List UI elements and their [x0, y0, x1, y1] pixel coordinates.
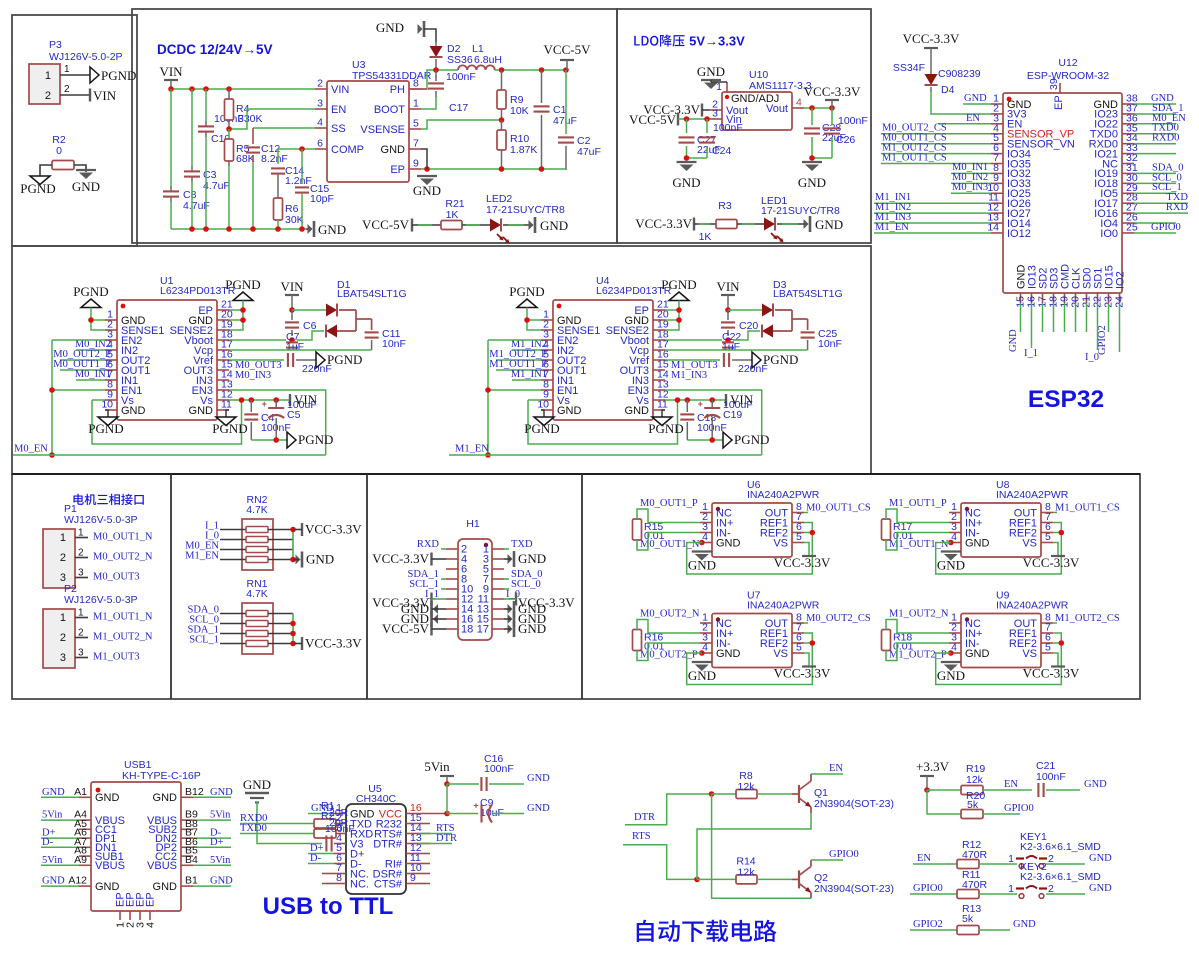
capacitor C8 4.7uF	[163, 190, 179, 192]
pin 10 DSR# of U5	[406, 873, 418, 875]
GND wire U8	[949, 542, 951, 544]
capacitor C5 100uF	[275, 400, 277, 407]
svg-text:5Vin: 5Vin	[424, 759, 450, 774]
svg-text:INA240A2PWR: INA240A2PWR	[996, 600, 1069, 612]
GND port H1 right	[513, 621, 516, 637]
pin B1 GND of USB1	[181, 885, 193, 887]
pin 4 of H1	[446, 558, 458, 560]
svg-text:VCC-3.3V: VCC-3.3V	[1023, 666, 1080, 681]
svg-text:M0_OUT2_N: M0_OUT2_N	[640, 609, 700, 620]
title motor three-phase connector	[73, 494, 83, 505]
pin 6 of H1	[446, 568, 458, 570]
pin 1 NC of U8	[949, 512, 961, 514]
svg-text:VIN: VIN	[280, 279, 304, 294]
ground symbol U6	[692, 550, 712, 552]
svg-text:GND: GND	[815, 217, 843, 232]
svg-text:M0_IN3: M0_IN3	[952, 182, 988, 193]
svg-text:M1_OUT2_N: M1_OUT2_N	[93, 632, 153, 643]
svg-text:INA240A2PWR: INA240A2PWR	[747, 489, 820, 501]
wire C8 column	[170, 89, 172, 186]
pin 1 GND of U12	[991, 103, 1003, 105]
svg-text:5Vin: 5Vin	[210, 855, 231, 866]
svg-text:8: 8	[413, 78, 419, 90]
svg-text:PGND: PGND	[88, 421, 123, 436]
pin 3 RXD of U5	[334, 833, 346, 835]
VIN port at U1 Vs	[289, 394, 291, 406]
pin 5 VS of U6	[792, 542, 804, 544]
svg-text:39: 39	[1048, 78, 1060, 90]
capacitor 220nF U1	[287, 353, 289, 367]
svg-text:M0_OUT3: M0_OUT3	[93, 572, 140, 583]
svg-text:100nF: 100nF	[838, 115, 868, 127]
svg-text:9: 9	[410, 872, 416, 884]
svg-text:M0_OUT2_N: M0_OUT2_N	[93, 552, 153, 563]
wire COMP pin to C14/C15	[278, 148, 315, 150]
pin 4 GND of U9	[949, 652, 961, 654]
svg-text:D-: D-	[310, 853, 322, 864]
svg-text:GPIO0: GPIO0	[1151, 222, 1181, 233]
svg-text:3: 3	[60, 652, 66, 664]
svg-text:PGND: PGND	[298, 432, 333, 447]
pin 3 IN- of U8	[949, 532, 961, 534]
pin 14 RTS# of U5	[406, 833, 418, 835]
pin 21 EP of U1	[217, 309, 229, 311]
svg-text:+: +	[262, 399, 267, 409]
pin 8 OUT of U9	[1041, 622, 1053, 624]
divider line mid row 1	[170, 474, 172, 699]
svg-text:GND: GND	[72, 179, 100, 194]
wire C14 to R6	[277, 174, 279, 198]
PGND under pin11 U1	[226, 410, 229, 417]
pin 1 of P3	[60, 74, 90, 76]
GND port RN2	[301, 552, 304, 568]
PGND under pin10 U4	[541, 410, 544, 417]
svg-text:GPIO2: GPIO2	[913, 919, 943, 930]
svg-text:M0_OUT1_P: M0_OUT1_P	[640, 498, 698, 509]
pin 15 OUT3 of U1	[217, 369, 229, 371]
svg-text:VBUS: VBUS	[147, 860, 177, 872]
wire 5Vin down	[446, 784, 448, 814]
pin 37 IO23 of U12	[1122, 113, 1134, 115]
svg-text:1: 1	[60, 532, 66, 544]
pin 3 IN- of U9	[949, 642, 961, 644]
svg-text:100nF: 100nF	[1036, 771, 1066, 783]
svg-text:GND: GND	[95, 792, 120, 804]
svg-text:3: 3	[712, 108, 718, 120]
svg-text:5: 5	[413, 118, 419, 130]
svg-text:18: 18	[461, 624, 473, 636]
svg-text:EN: EN	[331, 104, 346, 116]
wire VIN bus to U3 pin2	[171, 88, 315, 90]
pin 1 BOOT of U3	[409, 108, 421, 110]
transistor Q2 2N3904	[798, 870, 800, 888]
pin 2 IN+ of U7	[700, 632, 712, 634]
resistor R8 12k	[712, 793, 736, 795]
svg-text:A1: A1	[74, 786, 87, 798]
nc stubs U5 pins 7-8	[322, 873, 334, 875]
VCC-3.3V port RN2	[301, 523, 303, 536]
wire at U12 pin33	[1134, 153, 1176, 155]
wire VCC-3.3V to R3	[694, 223, 716, 225]
svg-text:VIN: VIN	[93, 88, 117, 103]
pin 16 VCC of U5	[406, 813, 418, 815]
svg-text:0: 0	[56, 145, 62, 157]
svg-text:NC.: NC.	[350, 878, 369, 890]
pin A1 GND of USB1	[79, 796, 91, 798]
svg-text:GND: GND	[625, 405, 650, 417]
gnd bus bottom of DCDC	[171, 228, 306, 230]
wire R11 to KEY2	[979, 893, 1017, 895]
wire R21 to LED2	[462, 224, 490, 226]
svg-text:5k: 5k	[962, 913, 974, 925]
pin 39 EP of U12	[1059, 83, 1061, 93]
pin B8 SUB2 of USB1	[181, 828, 193, 830]
wire SS pin to C12	[253, 127, 315, 129]
svg-text:M1_EN: M1_EN	[185, 551, 219, 562]
svg-text:330K: 330K	[238, 113, 263, 125]
svg-text:GND: GND	[937, 558, 965, 573]
pin 17 of H1	[492, 628, 504, 630]
svg-text:GND: GND	[557, 405, 582, 417]
pin 3 IN- of U7	[700, 642, 712, 644]
pin 6 OUT1 of U4	[541, 369, 553, 371]
pin 9 EP of U3	[409, 168, 421, 170]
resistor R9 10K	[501, 70, 503, 90]
svg-text:VCC-3.3V: VCC-3.3V	[635, 216, 692, 231]
pin 8 EN1 of U4	[541, 389, 553, 391]
svg-text:2: 2	[317, 78, 323, 90]
pin 23 IO15 of U12	[1108, 293, 1110, 303]
pin 12 of H1	[446, 598, 458, 600]
shared border motor/middle row	[12, 473, 1140, 475]
svg-text:VCC-5V: VCC-5V	[382, 621, 430, 636]
net M0_OUT2_CS at U7 OUT	[804, 622, 808, 624]
cap gnd wire U1	[251, 439, 287, 441]
svg-text:3: 3	[78, 568, 84, 579]
svg-text:17-21SUYC/TR8: 17-21SUYC/TR8	[486, 204, 565, 216]
pin 5 VS of U9	[1041, 652, 1053, 654]
svg-text:U12: U12	[1058, 57, 1077, 69]
resistor R6 30K	[274, 198, 283, 220]
svg-text:VBUS: VBUS	[95, 860, 125, 872]
wire R2 right to GND	[74, 165, 86, 172]
pin 8 OUT of U7	[792, 622, 804, 624]
svg-text:GND: GND	[716, 537, 741, 549]
Vcp wire U4	[665, 349, 808, 351]
svg-text:1: 1	[78, 608, 84, 619]
capacitor C21 100nF	[1037, 783, 1039, 797]
capacitor C6 bootstrap	[291, 310, 293, 320]
svg-text:D+: D+	[210, 837, 224, 848]
svg-text:5: 5	[1045, 642, 1051, 654]
svg-text:7: 7	[413, 138, 419, 150]
VCC-3.3V flag U7	[802, 665, 816, 667]
svg-text:DCDC 12/24V→5V: DCDC 12/24V→5V	[157, 42, 273, 57]
pin 3 EN of U12	[991, 123, 1003, 125]
svg-text:WJ126V-5.0-3P: WJ126V-5.0-3P	[64, 594, 138, 606]
svg-text:PGND: PGND	[763, 352, 798, 367]
ground symbol DCDC bus	[306, 228, 312, 230]
svg-text:AMS1117-3.3: AMS1117-3.3	[749, 80, 812, 92]
Vboot wire U4	[665, 339, 722, 341]
pin 5 OUT2 of U4	[541, 359, 553, 361]
svg-text:GND: GND	[964, 93, 987, 104]
pin 12 IO27 of U12	[991, 212, 1003, 214]
svg-text:GND: GND	[527, 773, 550, 784]
svg-text:PGND: PGND	[509, 284, 544, 299]
pin A7 DN1 of USB1	[79, 846, 91, 848]
svg-text:TXD: TXD	[511, 539, 533, 550]
pin 33 IO21 of U12	[1122, 153, 1134, 155]
pin 10 of H1	[446, 588, 458, 590]
resistor R10 1.87K	[497, 130, 506, 150]
pin 1 of H1	[492, 548, 504, 550]
svg-text:GND: GND	[210, 787, 233, 798]
resistor R3 1K	[716, 220, 737, 229]
svg-text:USB to TTL: USB to TTL	[263, 893, 394, 920]
pin 9 Vs of U1	[105, 399, 117, 401]
EN3 wire U4	[665, 390, 762, 455]
pin 11 GND of U1	[217, 409, 229, 411]
capacitor C15 10pF	[301, 149, 303, 184]
svg-text:3: 3	[317, 98, 323, 110]
wire GND pin7 to EP bus	[421, 149, 427, 169]
wire +3.3V to R19	[927, 789, 961, 791]
svg-text:C6: C6	[303, 320, 317, 332]
svg-text:1: 1	[1008, 853, 1014, 865]
capacitor 100nF at V3	[325, 836, 327, 852]
capacitor 220nF U4	[723, 353, 725, 367]
svg-text:M0_OUT2_CS: M0_OUT2_CS	[806, 613, 871, 624]
wire Q2 emitter	[810, 892, 812, 898]
svg-text:M0_EN: M0_EN	[14, 444, 48, 455]
pin 14 IO12 of U12	[991, 232, 1003, 234]
capacitor C7 1uF	[286, 341, 298, 343]
net GPIO0 row R20	[983, 813, 1020, 815]
pin 9 Vs of U4	[541, 399, 553, 401]
wire PH stub link	[409, 88, 427, 90]
svg-text:470R: 470R	[962, 879, 988, 891]
resistor R1 20R	[314, 819, 336, 828]
pin 20 GND of U1	[217, 319, 229, 321]
pin 4 V3 of U5	[334, 843, 346, 845]
pin A9 VBUS of USB1	[79, 864, 91, 866]
transistor Q1 2N3904	[798, 785, 800, 803]
junction dots on VIN bus	[168, 86, 174, 92]
svg-text:10pF: 10pF	[310, 193, 334, 205]
EN tie wire U4	[488, 339, 541, 341]
pin A8 SUB1 of USB1	[79, 855, 91, 857]
pin B9 VBUS of USB1	[181, 819, 193, 821]
svg-text:10nF: 10nF	[382, 338, 406, 350]
svg-text:1uF: 1uF	[286, 341, 304, 353]
REF2 tie U9	[1053, 642, 1061, 644]
svg-text:C19: C19	[723, 409, 742, 421]
svg-text:GND: GND	[518, 551, 546, 566]
pin 4 IN2 of U4	[541, 349, 553, 351]
svg-text:10K: 10K	[510, 105, 529, 117]
net M1_OUT2_CS at U9 OUT	[1053, 622, 1057, 624]
net EN row R19	[983, 789, 1032, 791]
svg-text:9: 9	[413, 158, 419, 170]
wire U5 VCC to 5Vin node	[418, 813, 447, 815]
svg-text:TXD0: TXD0	[240, 823, 267, 834]
svg-text:2: 2	[1048, 853, 1054, 865]
pin 4 IN2 of U1	[105, 349, 117, 351]
capacitor C27 22uF	[686, 119, 688, 133]
svg-text:2: 2	[78, 628, 84, 639]
capacitor C2 47uF	[565, 70, 567, 134]
svg-text:VCC-3.3V: VCC-3.3V	[774, 666, 831, 681]
svg-text:PGND: PGND	[73, 284, 108, 299]
svg-text:17: 17	[477, 624, 489, 636]
wire Q1 emitter cross	[810, 807, 812, 813]
pin 6 REF2 of U7	[792, 642, 804, 644]
pin 2 IN+ of U6	[700, 522, 712, 524]
net 5Vin USB1 A9	[41, 864, 79, 866]
wire PH node	[421, 70, 458, 89]
pin A6 DP1 of USB1	[79, 837, 91, 839]
svg-text:12k: 12k	[966, 774, 984, 786]
svg-text:EN: EN	[1004, 779, 1018, 790]
VIN port at U4 Vs	[725, 394, 727, 406]
pin 18 Vboot of U4	[653, 339, 665, 341]
svg-text:5k: 5k	[967, 799, 979, 811]
resistor R4 330K	[228, 89, 230, 99]
svg-text:RXD: RXD	[417, 539, 440, 550]
wire C12 bottom to gnd bus	[252, 155, 254, 162]
svg-text:C5: C5	[287, 409, 301, 421]
PGND flag caps U1	[287, 432, 296, 448]
svg-text:VS: VS	[773, 648, 788, 660]
EN tie wire U1	[52, 339, 105, 341]
svg-text:IO2: IO2	[1115, 271, 1127, 289]
pin 3 EN2 of U4	[541, 339, 553, 341]
svg-text:RTS: RTS	[632, 831, 651, 842]
svg-text:2: 2	[78, 548, 84, 559]
pin 5 VS of U7	[792, 652, 804, 654]
svg-text:C17: C17	[449, 102, 468, 114]
pin 18 of H1	[446, 628, 458, 630]
svg-text:LBAT54SLT1G: LBAT54SLT1G	[773, 288, 843, 300]
svg-text:M0_OUT1_N: M0_OUT1_N	[93, 532, 153, 543]
svg-text:EN: EN	[829, 763, 843, 774]
svg-text:1: 1	[64, 64, 70, 75]
wire R2 left to PGND	[40, 165, 52, 176]
pin 13 DTR# of U5	[406, 843, 418, 845]
pin 7 GND of U3	[409, 148, 421, 150]
capacitor C24 100nF	[706, 119, 708, 133]
pin 1 GND of U1	[105, 319, 117, 321]
pin 1 GND of U5	[334, 813, 346, 815]
svg-text:VIN: VIN	[716, 279, 740, 294]
svg-text:5Vin: 5Vin	[42, 810, 63, 821]
pin 2 of P3	[60, 94, 90, 96]
pin 14 of H1	[446, 608, 458, 610]
wire R3 to LED1	[737, 223, 764, 225]
resistor R19 12k	[961, 786, 983, 795]
svg-text:A12: A12	[68, 875, 87, 887]
svg-text:M1_IN1: M1_IN1	[511, 369, 547, 380]
gnd loop U6	[687, 523, 813, 575]
svg-text:DTR: DTR	[634, 812, 655, 823]
svg-text:M0_IN1: M0_IN1	[75, 369, 111, 380]
RN1 common rail	[292, 614, 294, 644]
pin 6 OUT1 of U1	[105, 369, 117, 371]
capacitor C28 22uF	[811, 108, 813, 125]
svg-text:VIN: VIN	[159, 64, 183, 79]
svg-text:R3: R3	[718, 200, 732, 212]
pin 2 SENSE1 of U4	[541, 329, 553, 331]
pin 16 IO13 of U12	[1031, 293, 1033, 303]
svg-text:2N3904(SOT-23): 2N3904(SOT-23)	[814, 883, 894, 895]
svg-text:SS34F: SS34F	[893, 62, 925, 74]
capacitor C22 1uF	[722, 341, 734, 343]
net M1_OUT1_CS at U8 OUT	[1053, 512, 1057, 514]
ground symbol LED1	[809, 216, 812, 232]
svg-text:VCC-3.3V: VCC-3.3V	[804, 84, 861, 99]
svg-text:1K: 1K	[699, 231, 712, 243]
title LDO 5V to 3.3V	[634, 36, 640, 46]
pin B5 CC2 of USB1	[181, 855, 193, 857]
svg-text:GND: GND	[1089, 883, 1112, 894]
pin 8 IO32 of U12	[991, 172, 1003, 174]
wire VCC-5V to pin3	[678, 118, 710, 120]
pin 6 COMP of U3	[315, 148, 327, 150]
capacitor C17 100nF bootstrap	[435, 70, 437, 81]
wire L1 to VCC-5V	[495, 69, 566, 71]
Vref wire to 220nF U4	[665, 359, 720, 361]
svg-text:INA240A2PWR: INA240A2PWR	[996, 489, 1069, 501]
svg-text:GND: GND	[306, 552, 334, 567]
svg-text:+3.3V: +3.3V	[916, 759, 950, 774]
net EN at Q1 collector	[810, 774, 812, 781]
pin 2 SENSE1 of U1	[105, 329, 117, 331]
pin 5 D+ of U5	[334, 853, 346, 855]
net GND USB1 A12	[41, 885, 79, 887]
net GND USB1 B12	[193, 796, 231, 798]
pin 25 IO0 of U12	[1122, 232, 1134, 234]
PGND under pin10 U1	[105, 410, 108, 417]
svg-text:PGND: PGND	[327, 352, 362, 367]
svg-text:VS: VS	[1022, 648, 1037, 660]
capacitor C19 100uF	[711, 400, 713, 407]
pin 7 IO35 of U12	[991, 163, 1003, 165]
svg-text:EN: EN	[917, 853, 931, 864]
svg-text:VCC-3.3V: VCC-3.3V	[774, 555, 831, 570]
svg-text:GND: GND	[1084, 779, 1107, 790]
svg-text:M1_OUT1_N: M1_OUT1_N	[889, 539, 949, 550]
svg-text:1: 1	[78, 528, 84, 539]
pin 30 IO18 of U12	[1122, 182, 1134, 184]
pin 3 EP of USB1	[139, 911, 141, 920]
capacitor C10 100nF	[198, 125, 214, 127]
svg-text:1: 1	[45, 70, 51, 82]
svg-text:GND: GND	[672, 175, 700, 190]
pin 13 EN3 of U4	[653, 389, 665, 391]
pin 7 REF1 of U9	[1041, 632, 1053, 634]
svg-text:1: 1	[1008, 883, 1014, 895]
wire gnd to V3 cap	[257, 802, 322, 844]
GND port H1 right	[513, 611, 516, 627]
cap gnd wire U4	[687, 439, 723, 441]
svg-text:M1_OUT1_P: M1_OUT1_P	[889, 498, 947, 509]
svg-text:2: 2	[60, 552, 66, 564]
VCC-3.3V flag U8	[1051, 555, 1065, 557]
pin 8 EN1 of U1	[105, 389, 117, 391]
svg-text:GND: GND	[381, 144, 406, 156]
svg-text:1uF: 1uF	[722, 341, 740, 353]
